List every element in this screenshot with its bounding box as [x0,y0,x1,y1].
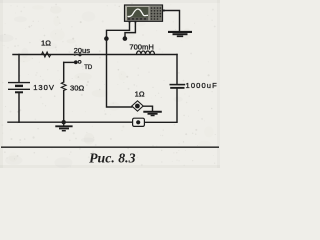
wire resistor R2 branch [63,63,65,123]
junction dot scope probe [104,36,109,41]
fuse 1ohm diamond [132,101,143,111]
scope terminal A [129,21,131,23]
capacitor C1 1000uF plates [170,84,186,86]
svg-text:20us: 20us [74,46,91,55]
wire battery bottom lead [18,93,20,122]
switch TD fixed contact on rail [78,53,81,56]
ground below fuse [143,112,162,116]
scope terminal B [135,21,137,23]
junction dot scope B end [123,36,128,41]
wire bottom rail [8,121,133,123]
wire fuse right lead to ground [143,106,152,111]
resistor R2 30ohm zigzag [61,82,66,91]
wire right side down to capacitor [176,55,178,85]
svg-text:1000uF: 1000uF [186,81,218,90]
ammeter box [133,118,145,126]
scope right terminal [162,10,164,12]
ground right of scope [168,32,192,36]
junction dot bottom rail ground [62,120,66,124]
oscilloscope [125,5,165,23]
wire scope channel A probe [107,22,132,108]
resistor R1 1ohm zigzag [42,52,51,57]
svg-text:1Ω: 1Ω [135,89,145,98]
svg-text:700mH: 700mH [129,42,153,51]
svg-text:TD: TD [84,65,93,71]
switch TD arm end [74,60,78,64]
wire scope channel B stub [125,22,135,39]
ground bottom left [55,122,72,131]
svg-text:1Ω: 1Ω [41,38,51,47]
svg-text:30Ω: 30Ω [70,84,84,93]
wire battery top lead [18,55,20,83]
wire capacitor bottom to lower right corner [145,89,178,123]
wire scope ground lead [163,11,180,32]
wire switch arm [64,61,74,63]
switch TD open terminal [78,61,81,64]
battery 130V [8,83,30,93]
svg-text:Рис. 8.3: Рис. 8.3 [89,151,135,166]
inductor L1 700mH [137,51,155,54]
wire top rail [13,54,177,56]
rule line above caption [1,146,219,148]
svg-text:130V: 130V [33,83,55,92]
